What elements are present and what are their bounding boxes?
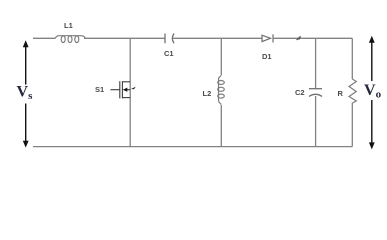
svg-text:L2: L2 bbox=[203, 89, 212, 98]
wire C2 branch lower bbox=[315, 96, 317, 147]
wire right vertical upper bbox=[351, 38, 353, 79]
resistor R bbox=[349, 79, 356, 103]
transistor S1 body arrow bbox=[123, 88, 128, 92]
Vs arrow down bbox=[23, 104, 29, 148]
inductor L1 bbox=[55, 36, 86, 43]
svg-text:C1: C1 bbox=[164, 49, 174, 58]
transistor S1 drain tick bbox=[131, 87, 136, 90]
wire right vertical lower bbox=[351, 103, 353, 147]
wire S1 branch upper bbox=[129, 38, 131, 146]
wire top segment D1 to right bbox=[273, 37, 352, 39]
svg-text:L1: L1 bbox=[64, 21, 73, 30]
Vo arrow down bbox=[369, 100, 375, 149]
capacitor C2 bbox=[309, 89, 322, 97]
svg-text:C2: C2 bbox=[295, 88, 305, 97]
wire L2 branch upper bbox=[220, 38, 222, 75]
wire bottom bbox=[33, 146, 352, 148]
wire top-left segment bbox=[33, 37, 55, 39]
wire top segment C1 to D1 bbox=[173, 37, 262, 39]
transistor S1 (MOSFET) bbox=[111, 81, 131, 98]
Vo arrow up bbox=[369, 36, 375, 81]
svg-text:S1: S1 bbox=[95, 85, 104, 94]
svg-text:R: R bbox=[338, 89, 344, 98]
wire L2 branch lower bbox=[220, 105, 222, 147]
inductor L2 bbox=[218, 76, 225, 105]
wire top middle segment bbox=[84, 37, 165, 39]
svg-text:D1: D1 bbox=[262, 52, 272, 61]
capacitor C1 bbox=[165, 34, 174, 44]
Vs arrow up bbox=[23, 40, 29, 84]
diode D1 bbox=[262, 34, 273, 42]
wire C2 branch upper bbox=[315, 38, 317, 88]
tick mark on wire bbox=[297, 36, 301, 40]
